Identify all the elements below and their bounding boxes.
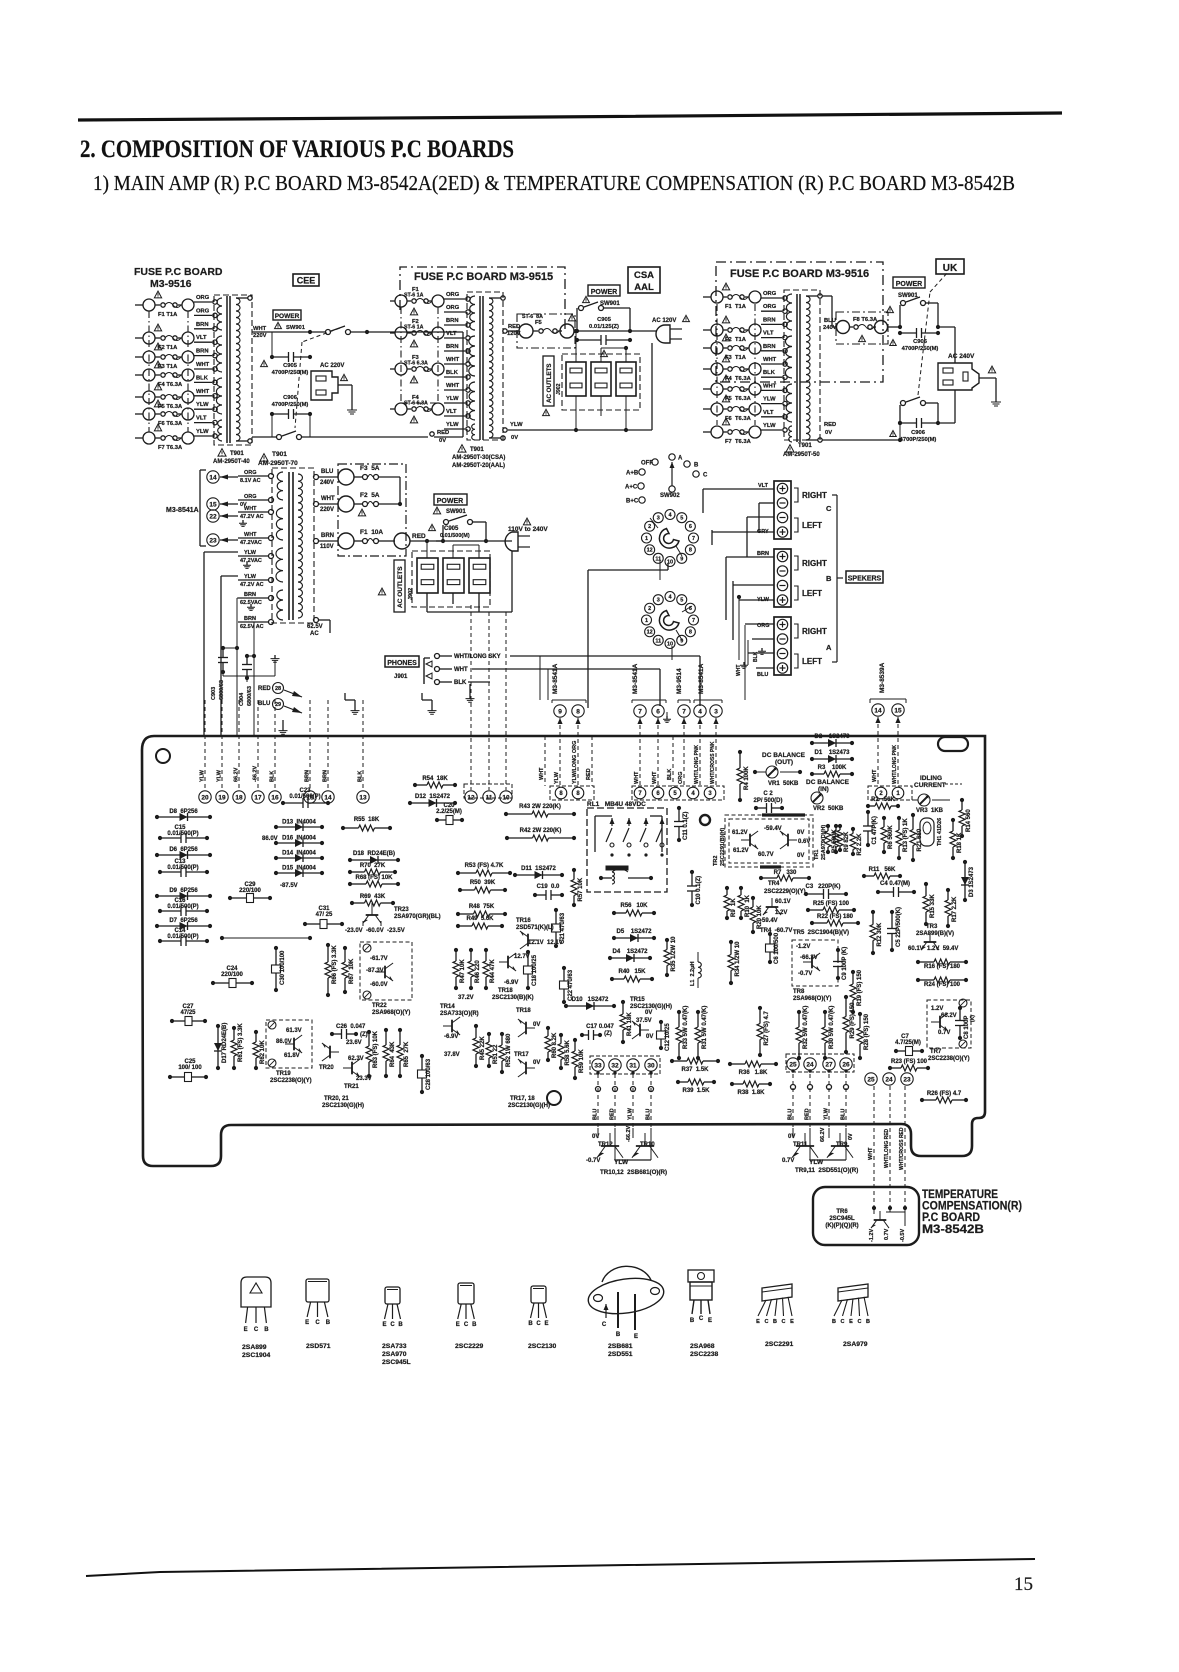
svg-text:60.7V: 60.7V <box>758 852 774 858</box>
svg-text:2SA968(O)(Y): 2SA968(O)(Y) <box>793 996 831 1002</box>
outlets dashed box (CSA) <box>562 354 640 410</box>
resistor R20 10K <box>752 898 754 907</box>
svg-text:T901: T901 <box>272 451 287 458</box>
svg-text:YLW: YLW <box>244 550 257 556</box>
svg-text:BRN: BRN <box>763 344 776 350</box>
svg-text:TR18: TR18 <box>498 988 513 994</box>
svg-text:TR14: TR14 <box>440 1004 455 1010</box>
svg-text:R58 5.6K: R58 5.6K <box>565 1039 571 1065</box>
resistor R58 5.6K <box>560 1035 562 1044</box>
resistor R27 (FS) 4.7 <box>759 1008 761 1024</box>
wire ORG (CEE) <box>194 301 212 303</box>
svg-text:66.2V: 66.2V <box>234 767 240 782</box>
svg-text:R48 75K: R48 75K <box>469 904 495 910</box>
wire to plug (UK) <box>938 326 955 328</box>
resistor R9b 1K <box>726 888 728 895</box>
svg-text:2SA899: 2SA899 <box>242 1344 267 1351</box>
resistor R5 560K <box>827 826 829 831</box>
wire WHT (CEE) <box>194 368 212 370</box>
capacitor C905 (CEE) <box>272 356 289 358</box>
svg-text:0.7V: 0.7V <box>884 1228 890 1240</box>
svg-text:ST-6 1A: ST-6 1A <box>404 293 424 299</box>
svg-text:R46 220: R46 220 <box>475 960 481 983</box>
svg-text:R7 330: R7 330 <box>774 870 797 876</box>
board pin 15 <box>304 791 316 803</box>
transistor TR22 2SA968(O)(Y) <box>376 963 393 981</box>
svg-text:C: C <box>858 1319 862 1325</box>
svg-text:TR15: TR15 <box>630 997 645 1003</box>
rotary switch lower arrows <box>682 606 692 612</box>
svg-text:WHT: WHT <box>652 771 658 784</box>
switch SW901 (UK) <box>899 305 901 327</box>
pins 14 15 top <box>872 704 884 716</box>
svg-text:BRN: BRN <box>196 322 209 328</box>
svg-text:T901: T901 <box>230 451 244 457</box>
svg-text:B: B <box>690 1318 695 1324</box>
svg-text:7: 7 <box>692 536 695 542</box>
svg-text:SPEKERS: SPEKERS <box>848 576 882 583</box>
svg-text:F4 T6.3A: F4 T6.3A <box>158 382 183 388</box>
diode D15 IN4004 <box>276 872 322 874</box>
pins 8 8 box <box>550 786 594 800</box>
winding tap WHT 47.2V AC <box>269 510 274 515</box>
svg-text:(K): (K) <box>970 1015 976 1022</box>
capacitor C28 100/63 <box>421 1056 423 1070</box>
ground (CEE) <box>338 384 352 386</box>
svg-text:R23 (FS) 100: R23 (FS) 100 <box>891 1059 928 1065</box>
svg-text:R60 8.2K: R60 8.2K <box>552 1032 558 1058</box>
svg-text:R66 (FS) 3.3K: R66 (FS) 3.3K <box>332 945 338 984</box>
fuse F7 (UK) <box>703 431 711 433</box>
svg-text:17: 17 <box>254 794 262 801</box>
wire BRN (CEE) <box>194 328 212 330</box>
wire WHT/CROSS PNK <box>715 718 717 786</box>
resistor R69 43K <box>352 902 365 904</box>
selector position A <box>669 454 675 460</box>
svg-text:D8 6P256: D8 6P256 <box>169 809 198 815</box>
svg-text:C905: C905 <box>283 363 298 369</box>
switch lower (UK) <box>899 405 901 423</box>
svg-text:R3 100K: R3 100K <box>818 765 847 771</box>
resistor R34 1/2W 10 <box>730 942 732 955</box>
fuse bus right (CEE) <box>187 311 189 432</box>
svg-text:0V: 0V <box>645 1010 652 1016</box>
svg-text:R45 22K: R45 22K <box>480 1036 486 1060</box>
svg-text:15: 15 <box>209 501 217 508</box>
svg-text:VR1 50KB: VR1 50KB <box>768 781 799 787</box>
wire BLK into pin <box>274 700 276 790</box>
svg-text:VLT: VLT <box>196 416 207 422</box>
svg-text:B: B <box>616 1332 621 1338</box>
fuse F2 (UK) <box>703 329 711 331</box>
svg-text:86.0V: 86.0V <box>276 1039 292 1045</box>
svg-text:R28 (FS) 150: R28 (FS) 150 <box>864 1013 870 1050</box>
fuse F5 (CEE) <box>135 396 143 398</box>
svg-text:2SA733: 2SA733 <box>382 1343 407 1350</box>
svg-text:E: E <box>382 1322 386 1328</box>
wire connector circles right <box>791 1085 796 1090</box>
svg-text:ST-6 6.3A: ST-6 6.3A <box>404 361 428 367</box>
svg-text:32: 32 <box>611 1062 619 1069</box>
svg-text:R14 560: R14 560 <box>966 809 972 832</box>
svg-text:C: C <box>254 1327 259 1333</box>
wire WHT (UK) <box>761 389 782 391</box>
fuse F2 5A (U/T) <box>338 496 354 512</box>
wire ORG (CSA) <box>444 311 465 313</box>
svg-text:R40 15K: R40 15K <box>618 969 646 975</box>
svg-text:F7 T6.3A: F7 T6.3A <box>725 439 752 445</box>
svg-text:YLW: YLW <box>196 402 209 408</box>
svg-text:R44 47K: R44 47K <box>490 959 496 983</box>
wire BRN (CEE) <box>194 355 212 357</box>
svg-text:R29 (FS) 150: R29 (FS) 150 <box>850 1002 856 1039</box>
svg-text:AM-2950T-50: AM-2950T-50 <box>783 452 820 458</box>
svg-text:2SC2130(B)(K): 2SC2130(B)(K) <box>492 995 534 1001</box>
resistor R48 75K <box>458 913 474 915</box>
svg-text:C21 470/63: C21 470/63 <box>560 912 566 944</box>
tap grounds (U/T) <box>242 520 244 523</box>
svg-text:R59 10K: R59 10K <box>579 1049 585 1073</box>
svg-text:CSA: CSA <box>634 270 654 281</box>
svg-text:13: 13 <box>359 794 367 801</box>
svg-text:WHT: WHT <box>244 506 257 512</box>
fuse F1 (UK) <box>703 296 711 298</box>
svg-text:B+C: B+C <box>626 499 639 505</box>
svg-text:C1 47P(K): C1 47P(K) <box>872 816 878 844</box>
svg-text:0V: 0V <box>788 1134 795 1140</box>
svg-text:2SC2130: 2SC2130 <box>528 1343 557 1350</box>
svg-text:18: 18 <box>235 794 243 801</box>
svg-text:-66.2V: -66.2V <box>800 955 818 961</box>
svg-text:RIGHT: RIGHT <box>802 627 827 636</box>
svg-text:VLT: VLT <box>196 335 207 341</box>
svg-text:R41 18K: R41 18K <box>627 1012 633 1036</box>
capacitor C904 6800/63 <box>247 655 254 657</box>
POWER label box (UK) <box>893 277 925 288</box>
svg-text:0.01/500(P): 0.01/500(P) <box>167 831 198 837</box>
ground above board <box>246 678 248 682</box>
svg-text:61.2V: 61.2V <box>732 830 748 836</box>
svg-text:BLK: BLK <box>270 771 276 782</box>
svg-text:BLU: BLU <box>593 1109 599 1120</box>
resistor R30 5W 0.47(K) <box>824 1012 826 1027</box>
svg-text:D2 1S2473: D2 1S2473 <box>814 734 850 740</box>
fuse out node (U/T) <box>394 533 410 549</box>
resistor R7 330 <box>761 877 777 879</box>
resistor R33 5W 0.47(K) <box>678 1012 680 1027</box>
winding tap ORG 0V <box>269 498 274 503</box>
svg-text:RIGHT: RIGHT <box>802 491 827 500</box>
connector box 26-24 <box>786 1054 854 1072</box>
svg-text:D12 1S2472: D12 1S2472 <box>415 794 451 800</box>
svg-text:L1 2.2μH: L1 2.2μH <box>690 962 696 986</box>
wires into pins 12-10 <box>470 605 472 790</box>
fuse bus (CSA) <box>400 307 402 403</box>
svg-text:C 2: C 2 <box>763 791 773 797</box>
board pin 19 <box>216 791 228 803</box>
svg-text:E: E <box>544 1321 548 1327</box>
fuse F8 T6.3A (UK) <box>837 321 850 334</box>
svg-text:TR23: TR23 <box>394 907 409 913</box>
svg-text:WHT: WHT <box>446 357 460 363</box>
capacitor C16 <box>160 910 181 912</box>
fuse F6 (CEE) <box>135 413 143 415</box>
fuse F4 (CSA) <box>390 408 395 410</box>
wire WHT c2a <box>639 718 641 786</box>
svg-text:C4 0.47(M): C4 0.47(M) <box>880 881 910 887</box>
resistor R53 (FS) 4.7K <box>458 872 476 874</box>
transformer T901 (CEE) core <box>226 296 228 443</box>
svg-text:7: 7 <box>638 708 642 715</box>
pins 25 24 23 <box>865 1073 877 1085</box>
ground stub A <box>282 720 284 727</box>
svg-text:29: 29 <box>275 702 281 708</box>
svg-text:24: 24 <box>885 1076 893 1083</box>
outlet bottom wires (U/T) <box>426 593 428 612</box>
pin arrow <box>875 717 880 723</box>
resistor R3 100K <box>812 773 824 775</box>
svg-text:J901: J901 <box>394 674 408 680</box>
svg-text:R32 5W 0.47(K): R32 5W 0.47(K) <box>803 1006 809 1049</box>
pot VR2 50KB <box>811 792 823 804</box>
svg-text:C903: C903 <box>211 687 217 700</box>
fuse board UK outline <box>716 262 883 382</box>
AC240V plug (UK) <box>938 363 979 390</box>
svg-text:47.2V AC: 47.2V AC <box>240 514 264 520</box>
transformer T901 (UK) dashed box <box>784 290 820 440</box>
svg-text:61.8V: 61.8V <box>284 1053 300 1059</box>
svg-text:D5 1S2472: D5 1S2472 <box>616 929 652 935</box>
svg-text:R22 (FS) 180: R22 (FS) 180 <box>817 914 854 920</box>
svg-text:C: C <box>765 1319 769 1325</box>
svg-text:47.2VAC: 47.2VAC <box>240 558 262 564</box>
svg-text:110V: 110V <box>320 544 334 550</box>
svg-text:C: C <box>536 1321 541 1327</box>
svg-text:WHT/CROSS PNK: WHT/CROSS PNK <box>710 741 716 784</box>
svg-text:M3-8541A: M3-8541A <box>632 663 639 694</box>
transistor TR12 <box>597 1133 623 1158</box>
svg-text:R39 1.5K: R39 1.5K <box>682 1088 710 1094</box>
wire BRN (CSA) <box>444 324 465 326</box>
svg-text:YLW: YLW <box>200 769 206 782</box>
svg-text:R34 1/2W 10: R34 1/2W 10 <box>735 941 741 977</box>
svg-text:-66.2V: -66.2V <box>253 765 259 782</box>
bottom rule <box>86 1559 1035 1576</box>
relay RL1 box <box>587 808 667 892</box>
board pin 20 <box>199 791 211 803</box>
svg-text:WHT/LONG PNK: WHT/LONG PNK <box>892 744 898 784</box>
label RED 0V (CEE) <box>430 432 434 436</box>
svg-text:BLK: BLK <box>358 771 364 782</box>
resistor R62 10K <box>255 1032 257 1042</box>
svg-text:14: 14 <box>874 707 882 714</box>
outlet 2 (CSA) <box>591 362 611 396</box>
svg-text:TR16: TR16 <box>516 918 531 924</box>
svg-text:BRN: BRN <box>446 318 459 324</box>
transformer T901 (CEE) secondary coil <box>236 298 240 441</box>
svg-text:D3 1S2473: D3 1S2473 <box>969 866 975 897</box>
outlet wiring (CSA) <box>575 331 577 362</box>
svg-text:-0.5V: -0.5V <box>900 1229 906 1242</box>
resistor R49 5.6K <box>458 925 472 927</box>
svg-text:0V: 0V <box>848 1133 854 1140</box>
svg-text:3: 3 <box>657 598 660 604</box>
wire BLK c2 <box>672 736 674 786</box>
svg-text:C: C <box>782 1319 786 1325</box>
secondary bottom (U/T) <box>314 618 319 623</box>
package 2SA733/2SA970/2SC945L <box>385 1287 400 1304</box>
svg-text:9: 9 <box>680 556 683 562</box>
svg-text:M3-9514: M3-9514 <box>676 668 683 694</box>
svg-text:WHT: WHT <box>321 496 335 502</box>
svg-text:22: 22 <box>209 513 217 520</box>
speaker mesh verticals <box>738 597 740 660</box>
svg-text:B: B <box>264 1327 269 1333</box>
svg-text:YLW: YLW <box>446 396 459 402</box>
transformer T901 (UK) secondary <box>806 296 810 440</box>
resistor R4 100K <box>739 752 741 768</box>
svg-text:D15 IN4004: D15 IN4004 <box>282 866 316 872</box>
svg-text:0.7V: 0.7V <box>938 1030 950 1036</box>
svg-text:B: B <box>826 574 832 583</box>
pin arrow <box>655 718 660 724</box>
svg-text:R27 (FS) 4.7: R27 (FS) 4.7 <box>764 1010 770 1045</box>
outlet wires (U/T) <box>426 541 428 558</box>
resistor R60b 8.2K <box>547 1028 549 1036</box>
svg-text:FUSE P.C BOARD M3-9515: FUSE P.C BOARD M3-9515 <box>414 271 553 283</box>
resistor R11 56K <box>864 875 874 877</box>
TR11 wiring <box>792 1128 794 1138</box>
svg-text:B: B <box>398 1322 403 1328</box>
svg-text:YLW: YLW <box>244 574 257 580</box>
svg-text:RED: RED <box>412 533 426 540</box>
selector post <box>669 486 675 492</box>
svg-text:R11 56K: R11 56K <box>869 867 896 873</box>
svg-text:ORG: ORG <box>446 292 460 298</box>
svg-text:R9 1K: R9 1K <box>731 898 737 917</box>
svg-text:A+B: A+B <box>626 471 639 477</box>
svg-text:WHT: WHT <box>872 769 878 782</box>
svg-text:AM-2950T-40: AM-2950T-40 <box>213 459 250 465</box>
svg-text:BLK: BLK <box>763 370 776 376</box>
svg-text:R19 (FS) 150: R19 (FS) 150 <box>857 969 863 1006</box>
svg-text:AC OUTLETS: AC OUTLETS <box>397 566 404 608</box>
svg-text:20: 20 <box>201 794 209 801</box>
svg-text:R6 560K: R6 560K <box>888 825 894 849</box>
svg-text:IDLING: IDLING <box>920 775 942 782</box>
svg-text:-61.7V: -61.7V <box>370 956 388 962</box>
wire rotary to board <box>588 569 668 571</box>
svg-text:ORG: ORG <box>678 771 684 784</box>
svg-text:-59.4V: -59.4V <box>760 918 778 924</box>
svg-text:2SD551: 2SD551 <box>608 1351 633 1358</box>
pin 15 (M3-8541A) <box>207 498 219 510</box>
svg-text:M3-8539A: M3-8539A <box>879 662 886 693</box>
board pin 11 <box>483 791 495 803</box>
svg-text:VLT: VLT <box>758 483 769 489</box>
svg-text:0V: 0V <box>439 438 446 444</box>
svg-text:A+C: A+C <box>625 485 638 491</box>
resistor R36 1.8K <box>730 1063 745 1065</box>
POWER label box (CSA) <box>588 285 620 296</box>
switch SW901 (CSA) <box>575 329 579 333</box>
svg-text:BRN: BRN <box>757 551 769 557</box>
board mounting hole bottom <box>547 1091 561 1105</box>
transformer (U/T) secondary <box>298 474 302 618</box>
resistor R68 (FS) 10K <box>350 883 366 885</box>
svg-text:WHT: WHT <box>634 771 640 784</box>
svg-text:TR11: TR11 <box>793 1142 808 1148</box>
svg-text:TR12: TR12 <box>598 1142 613 1148</box>
transformer T901 (CEE) secondary taps <box>236 297 248 299</box>
resistor R39 1.5K <box>678 1081 688 1083</box>
svg-text:0V: 0V <box>825 430 832 436</box>
phones ground <box>469 684 471 695</box>
phones vertical wires <box>539 656 541 700</box>
svg-text:F1 T1A: F1 T1A <box>158 312 178 318</box>
svg-text:2SC2238(O)(Y): 2SC2238(O)(Y) <box>928 1056 970 1062</box>
pins 7-3 box <box>632 786 724 800</box>
svg-text:2SB681: 2SB681 <box>608 1343 633 1350</box>
svg-text:RIGHT: RIGHT <box>802 559 827 568</box>
capacitor C906 top (UK) <box>900 332 917 334</box>
svg-text:AAL: AAL <box>634 282 654 293</box>
phones wire BLK <box>435 680 440 685</box>
resistor R16 (FS) 180 <box>918 961 934 963</box>
PHONES label box <box>385 656 419 667</box>
switch SW901 (U/T) <box>436 540 443 542</box>
svg-text:C906: C906 <box>911 430 926 436</box>
transistor TR8 2SA968(O)(Y) <box>803 953 820 971</box>
svg-text:2SA968(O)(Y): 2SA968(O)(Y) <box>372 1010 410 1016</box>
svg-text:R4 100K: R4 100K <box>744 766 750 790</box>
svg-text:F1 10A: F1 10A <box>360 529 383 536</box>
fuse bus (UK) <box>716 304 718 425</box>
svg-text:R35 1/2W 10: R35 1/2W 10 <box>671 936 677 972</box>
phones wire WHT/LONG SKY <box>435 654 440 659</box>
diode D2 1S2473 <box>812 742 852 744</box>
pin 7 top b <box>678 705 690 717</box>
svg-text:C6 100/500: C6 100/500 <box>774 932 780 964</box>
selector position B <box>684 461 690 467</box>
svg-text:POWER: POWER <box>896 281 922 288</box>
capacitor C18 100/25 <box>527 952 529 966</box>
svg-text:TR6: TR6 <box>836 1209 848 1215</box>
svg-text:86.0V: 86.0V <box>262 836 278 842</box>
wire YLW into pin <box>221 700 223 790</box>
fuse F4 (UK) <box>703 368 711 370</box>
svg-text:AC 240V: AC 240V <box>948 353 975 360</box>
resistor R42 2W 220(K) <box>507 837 533 839</box>
svg-text:2SC2229: 2SC2229 <box>455 1343 484 1350</box>
svg-text:12.7V: 12.7V <box>514 954 530 960</box>
wire WHT c4 <box>877 717 879 786</box>
resistor R9 82K <box>839 826 841 830</box>
speaker block A <box>774 617 791 675</box>
svg-text:WHT: WHT <box>763 383 777 389</box>
svg-text:-6.9V: -6.9V <box>504 980 518 986</box>
svg-text:R55 18K: R55 18K <box>354 817 380 823</box>
svg-text:R61 (FS) 3.3K: R61 (FS) 3.3K <box>238 1023 244 1062</box>
board pin 18 <box>233 791 245 803</box>
svg-text:C905: C905 <box>597 317 612 323</box>
diode D9 6P256 <box>157 895 210 897</box>
diode D8 6P256 <box>157 816 210 818</box>
transformer T901 (CSA) secondary <box>489 298 493 438</box>
svg-text:R63 (FS) 10K: R63 (FS) 10K <box>373 1030 379 1068</box>
svg-text:-23.0V -60.0V -23.5V: -23.0V -60.0V -23.5V <box>345 928 405 934</box>
speaker wiring mesh <box>703 488 774 490</box>
